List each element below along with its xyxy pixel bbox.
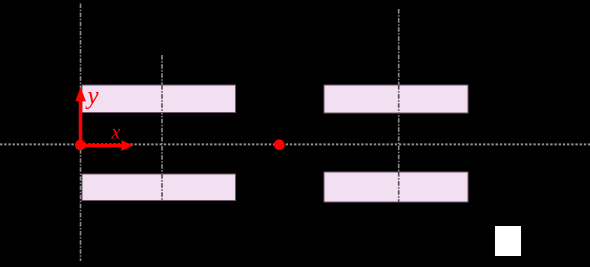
- wire vertical centerline right plates (dash-dot): [398, 9, 400, 202]
- plate P4 bottom-right: [324, 172, 468, 202]
- wire centerline overlay on plate P4: [398, 172, 400, 202]
- wire centerline overlay on plate P1: [161, 85, 163, 113]
- node focus point (red dot): [274, 139, 285, 150]
- wire centerline overlay on plate P3: [398, 85, 400, 113]
- axis arrow x: [80, 140, 134, 151]
- wire vertical centerline left (dash-dot): [80, 4, 82, 262]
- svg-text:y: y: [85, 83, 100, 110]
- wire vertical centerline mid-left plates (dash-dot): [161, 55, 163, 201]
- wire horizontal beam axis (dashed): [0, 143, 590, 145]
- plate P3 top-right: [324, 85, 468, 113]
- svg-text:x: x: [111, 122, 121, 144]
- plate P2 bottom-left: [82, 174, 236, 201]
- plate P1 top-left: [82, 85, 236, 113]
- node origin O (red dot): [75, 140, 86, 151]
- wire centerline overlay on plate P2: [161, 174, 163, 201]
- axis arrow y: [75, 87, 86, 145]
- screen marker (white square): [495, 226, 521, 256]
